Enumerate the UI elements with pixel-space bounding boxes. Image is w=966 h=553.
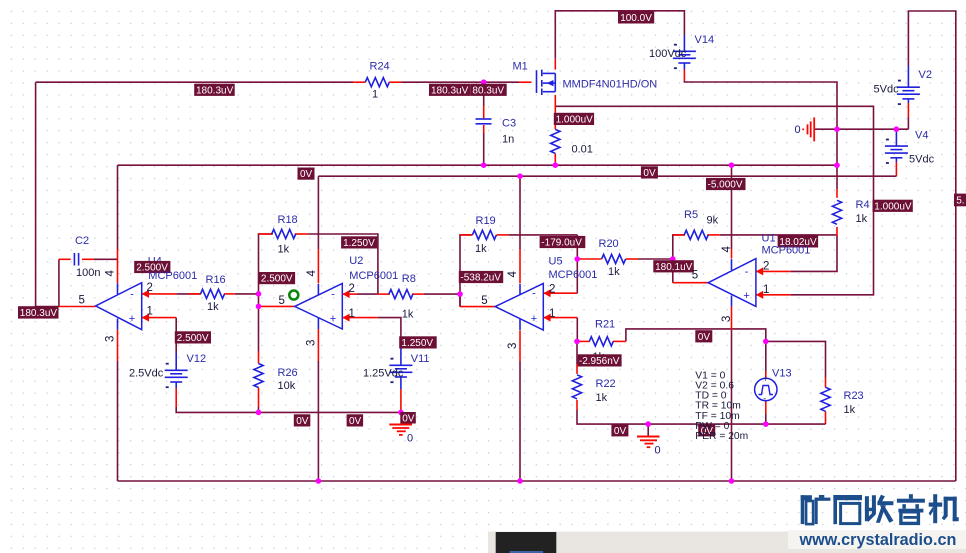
node R26 bottom on 0V rail [256,410,262,416]
battery V14 100Vdc [673,36,696,70]
bias label 0V (over PW text) [698,424,715,437]
wire U1 pin3 drop [731,330,733,481]
C3 pin stubs [483,106,485,119]
op-amp U2 MCP6001 [295,283,350,329]
wire R18 right feedback to U2 pin2 [308,234,378,294]
ground 0 symbol (bottom center) [637,424,661,456]
bias label 0V (left, on 0V bus) [298,168,315,181]
node U1 pin4 on 0V bus [729,162,735,168]
svg-text:0V: 0V [349,416,362,427]
U2 pin2 stub [342,293,357,295]
wire R22 bottom to lower 0V rail [577,410,826,424]
char shou [865,495,894,523]
resistor 0.01 (M1 source) [551,129,560,153]
svg-text:MMDF4N01HD/ON: MMDF4N01HD/ON [563,79,658,91]
svg-text:+: + [330,313,336,325]
bias label 180.3uV (U4 output) [18,306,59,319]
bias label 1.000uV (M1 source) [554,113,594,126]
svg-text:5Vdc: 5Vdc [909,154,935,166]
wire U5 output node to R19 left [460,235,472,307]
R5 pin stubs [673,234,685,236]
op-amp U5 MCP6001 [495,283,550,330]
wire U2 pin3 drop [317,361,319,481]
svg-text:-: - [130,288,134,300]
wire V13 top node to R23 top [766,341,826,377]
svg-text:5: 5 [481,295,487,307]
svg-text:5: 5 [79,295,85,307]
char kuang [801,495,831,524]
wire U2 output node column to R18 left [259,234,273,306]
node V13 top [763,339,769,345]
0.01 resistor bottom stub [554,154,556,166]
svg-text:5.: 5. [956,196,964,207]
svg-text:0: 0 [655,445,661,457]
svg-text:1.250V: 1.250V [401,338,433,349]
capacitor C2 [74,253,78,266]
wire R22 top stub [576,341,578,364]
node C3 bottom on 0V bus [481,162,487,168]
M1 source stub down to 0.01 resistor [554,95,556,129]
node U5 pin2 / R20 left [575,256,581,262]
wire U4 pin1 down to V12 [175,318,177,353]
node U5 pin3 on +5V bus [517,478,523,484]
bias label 180.3uV (top left) [194,84,235,97]
svg-text:C2: C2 [75,235,89,247]
node 0.01 bottom on 0V bus [553,162,559,168]
svg-text:100Vdc: 100Vdc [649,48,687,60]
svg-text:1.25Vdc: 1.25Vdc [363,368,404,380]
battery V11 1.25Vdc [389,347,412,389]
svg-text:1k: 1k [844,404,856,416]
resistor R19 [472,230,496,239]
V2 bottom stub [907,103,909,117]
resistor R4 [832,200,841,224]
svg-text:1: 1 [147,306,153,318]
svg-text:-: - [745,266,749,278]
svg-text:2.500V: 2.500V [177,333,209,344]
node ground rail center [645,421,651,427]
wire C2 left from U4 output [58,259,60,306]
wire ground net across top right [814,128,908,130]
resistor R5 [684,230,708,239]
wire C2 right to U4 pin4 drop [94,258,118,260]
V12 bottom stub [175,388,177,407]
wire U2 pin4 drop from -5V bus [317,176,319,249]
M1 drain stub [554,59,556,70]
svg-text:MCP6001: MCP6001 [549,269,598,281]
svg-text:180.1uV: 180.1uV [655,262,693,273]
resistor R8 [389,290,413,299]
wire M1 source bus 1.000uV to U1 pin1 [555,106,873,294]
svg-text:100.0V: 100.0V [620,13,652,24]
wire R8 right to U5 output node [424,294,460,307]
svg-text:R22: R22 [596,378,616,390]
node V14 minus on ground wire [834,126,840,132]
red pin stubs [59,59,909,424]
svg-text:2: 2 [147,282,153,294]
R8 pin stubs [378,293,390,295]
svg-text:2: 2 [349,283,355,295]
R24 pin stubs [353,81,365,83]
svg-text:1k: 1k [207,301,219,313]
svg-text:R19: R19 [476,215,496,227]
svg-text:+: + [763,375,768,384]
watermark www.crystalradio.cn [788,530,966,549]
U5 pin1 stub [543,317,577,319]
bias label -538.2uV [459,271,503,284]
svg-text:0V: 0V [300,169,313,180]
wire R4 bottom to U1 pin2 [791,236,837,271]
svg-text:10k: 10k [278,380,296,392]
M1 gate stub [519,81,532,83]
resistor R21 [589,337,613,346]
bias label 1.250V (U2 top) [341,236,377,249]
wire bus -5.000V [318,175,896,177]
wire U4 pin4 drop [117,165,119,249]
R21 pin stubs [577,340,590,342]
wire U2 output node down to R26 [258,306,260,351]
svg-text:100n: 100n [76,267,100,279]
svg-text:0V: 0V [614,426,627,437]
wire R16 right to U2 output node [235,293,259,295]
R26 pin stubs [258,352,260,364]
U2 output stub [259,305,295,307]
wire 0V bus (a) [118,164,838,166]
svg-text:4: 4 [721,246,733,253]
transistor M1 MMDF4N01HD/ON [537,70,556,95]
svg-text:U5: U5 [549,255,563,267]
svg-text:1k: 1k [475,243,487,255]
U1 pin1 stub [756,294,791,296]
bias label 0V (R21 right) [695,330,712,343]
wire R20 right to U1 output node [638,258,673,260]
wire V2 minus down to ground net [907,117,909,129]
U5 output stub [460,306,495,308]
resistor R18 [272,229,296,238]
wire M1 drain to 100.0V rail and V14 top [555,11,684,59]
wire V13 top stub [765,341,767,371]
bias label 0V (V11 ground) [400,412,416,424]
U5 pin2 stub [543,292,577,294]
resistor R22 [572,375,581,399]
svg-text:180.3uV: 180.3uV [196,85,234,96]
svg-text:U1: U1 [762,232,776,244]
node U1 output / R20 [670,256,676,262]
op-amp U1 MCP6001 [708,259,763,307]
R19 pin stubs [460,234,472,236]
U1 output stub [673,282,708,284]
wire U5 pin2 column [576,235,578,293]
svg-text:-: - [331,289,335,301]
svg-text:3: 3 [306,340,318,346]
svg-text:1: 1 [549,308,555,320]
wire U5 pin4 drop from -5V bus [519,176,521,249]
svg-text:1k: 1k [402,309,414,321]
wire +5V bottom bus to op-amp pin3 drops [118,480,956,482]
wire R5 right to pin2 column [720,234,837,236]
wire R26 bottom to 0V rail [258,407,260,412]
U4 pin4 stub [117,249,119,283]
node U5 pin4 on -5V bus [517,173,523,179]
R22 pin stubs [576,364,578,374]
svg-text:0: 0 [795,124,801,136]
node R21 R22 U5 pin1 [574,339,580,345]
char shi [833,495,862,524]
resistor R23 [821,387,830,411]
wire V4 minus to -5V bus [895,174,897,177]
svg-text:-5.000V: -5.000V [708,180,743,191]
node U2 output / R16 [256,291,262,297]
svg-text:R23: R23 [844,390,864,402]
battery polarity marks [0,0,1,1]
U2 pin4 stub [317,249,319,283]
svg-text:V11: V11 [411,353,430,365]
U1 pin2 stub [756,270,791,272]
U2 pin3 stub [317,329,319,361]
wire U2 pin1 down to V11 [378,318,401,348]
svg-text:U2: U2 [349,255,363,267]
svg-text:1k: 1k [596,392,608,404]
svg-text:R24: R24 [370,61,390,73]
U2 pin numbers [279,283,355,320]
U2 pin1 stub [342,317,377,319]
bias label 180.3uV (at M1 gate) [429,84,471,97]
svg-text:2: 2 [549,284,555,296]
bias label 1.250V (V11 top) [399,336,437,349]
ground 0 symbol (rotated, near V2/V4) [795,117,815,141]
V14 bottom stub [683,70,685,82]
node U1 pin3 on +5V bus [729,478,735,484]
bias label 5.000V (cut at right edge) [954,194,966,207]
svg-text:V13: V13 [772,367,792,379]
R4 pin stubs [836,189,838,198]
node V2/V4 on ground wire [894,126,900,132]
svg-text:1k: 1k [608,266,620,278]
svg-text:1: 1 [763,284,769,296]
svg-text:R18: R18 [278,214,298,226]
svg-text:-2.956nV: -2.956nV [579,356,620,367]
svg-text:0.01: 0.01 [572,144,593,156]
R16 pin stubs [189,293,201,295]
svg-text:1: 1 [349,308,355,320]
svg-text:1.000uV: 1.000uV [556,115,594,126]
svg-text:0V: 0V [296,416,309,427]
svg-text:5: 5 [692,270,698,282]
U1 pin3 stub [731,306,733,330]
U4 pin1 stub [142,317,177,319]
resistor R20 [602,254,626,263]
svg-text:PER = 20m: PER = 20m [695,431,748,442]
watermark logo text (kuang shi shou yin ji) drawn strokes [801,494,959,524]
bottom UI strip [488,532,966,553]
bias label 0V (right, on 0V bus) [641,166,658,179]
C2 pin stubs [59,258,71,260]
pulse source V13 [755,375,777,404]
svg-text:80.3uV: 80.3uV [472,85,504,96]
svg-text:R16: R16 [206,274,226,286]
wire U1 pin4 drop [731,165,733,249]
R18 pin stubs [259,233,273,235]
U1 pin numbers [692,261,770,297]
node R4 column on 0V bus [834,162,840,168]
svg-text:0: 0 [407,433,413,445]
bias label -179.0uV [540,236,586,249]
svg-text:3: 3 [507,343,519,349]
bias label 0V (0V rail #1) [294,414,311,427]
svg-text:V12: V12 [187,353,207,365]
U5 pin4 stub [519,249,521,283]
char yin [897,494,925,523]
svg-text:-179.0uV: -179.0uV [541,238,582,249]
svg-text:180.3uV: 180.3uV [20,308,58,319]
U1 pin4 stub [731,249,733,259]
bias label 2.500V (U4 top) [134,261,170,274]
bias label 180.1uV [653,260,694,273]
bias label 2.500V (U4 pin1) [175,331,211,344]
wire R21 right up and across 0V to V13 top [626,329,766,342]
wire V2 plus up and to +5V right edge column [908,11,955,481]
wire C3 drop from gate wire to 0V bus [483,82,485,165]
U4 pin numbers [79,282,153,318]
V4 bottom stub [895,162,897,175]
wire ground column to R4 [836,129,838,189]
wire net 180.3uV: U4 output up left side and across top to M1 gate [36,82,519,306]
battery V12 2.5Vdc [165,353,188,389]
op-amp U4 MCP6001 [96,283,149,330]
svg-text:M1: M1 [513,61,528,73]
svg-text:5: 5 [279,295,285,307]
svg-text:3: 3 [721,316,733,322]
svg-text:V4: V4 [915,130,928,142]
V13 pin stubs [765,371,767,378]
pulse source V13 parameter text [695,371,748,443]
wire R19 right to U5 pin2 column [508,234,577,236]
svg-text:R8: R8 [402,273,416,285]
bias label 1.000uV (near R4) [873,200,913,213]
node V13 bottom on rail [763,421,769,427]
svg-text:+: + [531,313,537,325]
svg-text:9k: 9k [707,215,719,227]
node U5 output / R8 [457,291,463,297]
battery V2 5Vdc [897,66,920,105]
ground 0 symbol (under V11) [389,425,413,445]
resistor R16 [201,289,225,298]
char ji [929,494,959,523]
svg-text:0V: 0V [643,168,656,179]
svg-text:-: - [763,394,766,404]
wire U5 pin1 down to R21 R22 node [576,318,578,342]
svg-text:www.crystalradio.cn: www.crystalradio.cn [799,531,957,549]
svg-text:180.3uV: 180.3uV [431,85,469,96]
U5 pin3 stub [519,330,521,361]
svg-text:3: 3 [105,336,117,342]
svg-text:1.000uV: 1.000uV [874,201,912,212]
svg-text:0V: 0V [698,332,711,343]
svg-text:1k: 1k [856,213,868,225]
svg-text:1: 1 [372,89,378,101]
wire R23 bottom to lower 0V rail [825,423,827,424]
R20 pin stubs [577,258,601,260]
bias label 100.0V [618,11,654,24]
svg-text:2: 2 [763,261,769,273]
svg-text:C3: C3 [502,118,516,130]
svg-text:4: 4 [306,270,318,277]
svg-text:MCP6001: MCP6001 [762,245,811,257]
svg-text:0V: 0V [402,413,415,424]
svg-text:V14: V14 [695,34,715,46]
bias label 80.3uV (at M1 gate) [471,84,507,97]
U4 pin3 stub [117,330,119,361]
U5 pin numbers [481,284,555,321]
svg-text:1k: 1k [278,244,290,256]
svg-text:4: 4 [105,270,117,277]
bias label -2.956nV [578,354,622,367]
node gate/C3 junction [481,79,487,85]
wire V13 bottom to rail [765,414,767,424]
V11 bottom stub [400,389,402,412]
svg-text:R26: R26 [278,367,298,379]
svg-text:R5: R5 [684,209,698,221]
svg-text:-: - [532,288,536,300]
capacitor C3 [476,119,492,124]
bias label 2.500V (U2 output) [259,272,295,285]
node marker green ring [289,291,298,300]
svg-text:+: + [129,313,135,325]
svg-text:MCP6001: MCP6001 [349,270,398,282]
svg-text:MCP6001: MCP6001 [148,270,197,282]
wire U5 pin3 drop [519,361,521,481]
svg-text:5Vdc: 5Vdc [874,84,900,96]
bias label -5.000V [706,178,746,191]
svg-text:+: + [743,290,749,302]
wire U2 pin2 to R8 left [357,293,378,295]
svg-text:R20: R20 [599,238,619,250]
svg-text:2.5Vdc: 2.5Vdc [129,368,164,380]
wire U1 output node to R5 left [673,235,685,283]
U4 pin2 stub [142,293,177,295]
wire V12 minus to 0V rail [176,407,401,412]
resistor R24 [365,78,389,87]
svg-text:R4: R4 [856,199,870,211]
bias label 18.02uV [778,235,819,248]
svg-text:4: 4 [507,271,519,278]
svg-text:1.250V: 1.250V [343,238,375,249]
bias label 0V (lower rail near ground) [611,424,628,437]
R23 pin stubs [825,378,827,388]
resistor R26 [254,364,263,388]
battery V4 5Vdc [885,129,908,164]
svg-text:R21: R21 [595,319,615,331]
node U2 pin3 on +5V bus [316,478,322,484]
wire U4 pin2 to R16 left [176,293,201,295]
svg-text:2.500V: 2.500V [261,274,293,285]
svg-text:-538.2uV: -538.2uV [460,273,501,284]
node U2 output stub [256,304,262,310]
svg-text:V2: V2 [919,69,932,81]
wire U4 pin3 drop [117,361,119,481]
svg-text:1n: 1n [502,134,514,146]
bias label 0V (0V rail #2) [347,414,364,427]
U4 output stub [59,306,96,308]
node V11 bottom on 0V rail [398,410,404,416]
wire V14 minus to ground column [684,81,837,129]
